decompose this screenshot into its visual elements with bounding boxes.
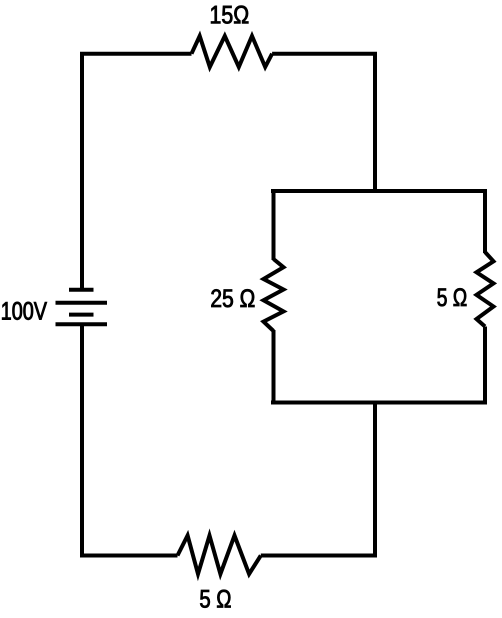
battery 100V [56,290,108,324]
wire: right branch lower segment [483,327,487,405]
resistor 5ohm (bottom) [178,536,261,575]
label 25 ohm [211,289,254,307]
resistor 25ohm (left branch) [264,259,284,331]
resistor 15ohm (top) [192,36,273,67]
wire: bottom resistor back to battery - terminal [82,324,178,556]
wire: left branch upper segment [272,189,276,260]
wire: battery + terminal up and across top to R1 [82,54,192,290]
label 15 ohm [211,6,248,24]
wire: right branch upper segment [483,189,487,253]
wire: box bottom node down and left to bottom resistor [261,401,375,556]
wire: parallel box top edge [271,189,487,193]
wire: parallel box bottom edge [271,401,487,405]
label 5 ohm (bottom) [200,590,230,608]
label 100V [2,302,47,320]
wire: R1 to right, down to parallel box top node [272,54,375,191]
label 5 ohm (right branch) [438,288,467,306]
wire: left branch lower segment [272,330,276,405]
resistor 5ohm (right branch) [477,252,494,327]
